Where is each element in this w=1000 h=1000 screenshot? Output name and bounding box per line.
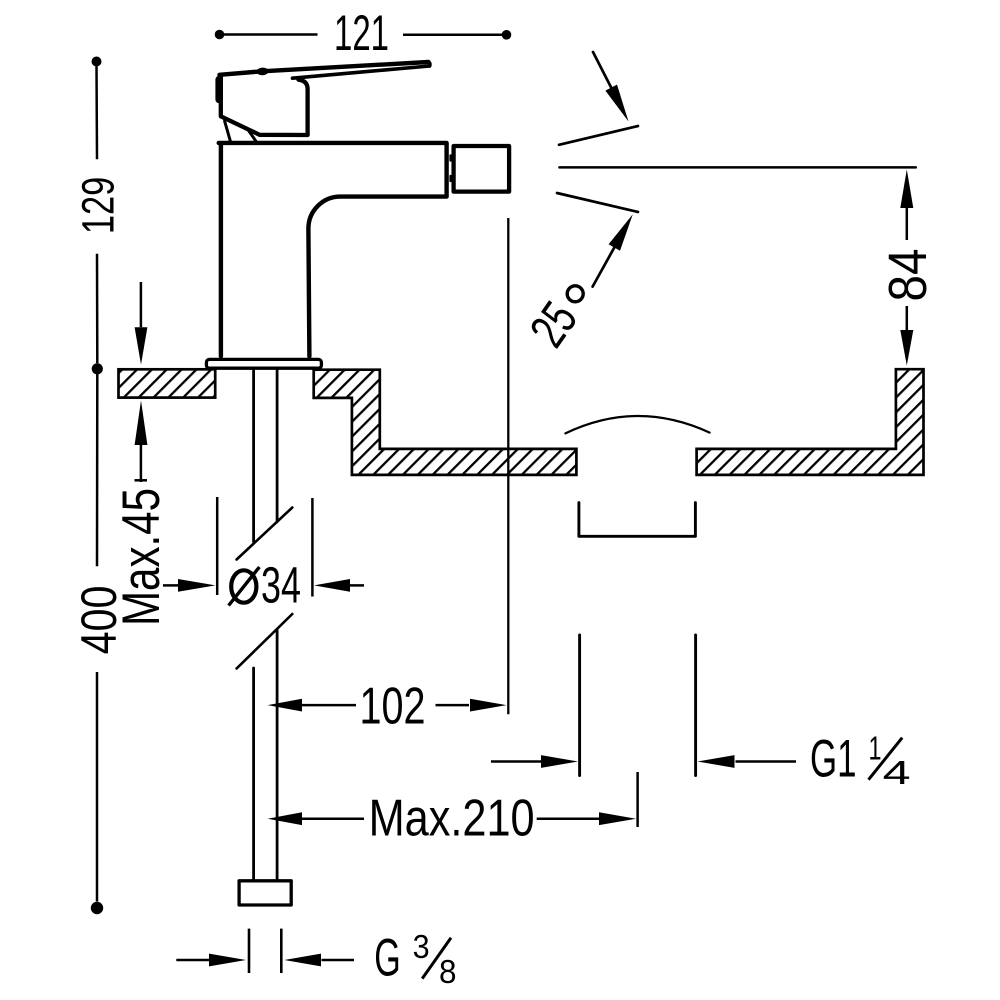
svg-text:G: G xyxy=(374,929,401,988)
aerator xyxy=(454,146,510,192)
svg-text:G1: G1 xyxy=(810,730,857,789)
stepped deck piece xyxy=(314,370,577,475)
supply pipe left line xyxy=(252,371,255,880)
faucet body outline xyxy=(219,143,447,356)
svg-text:3: 3 xyxy=(413,928,430,965)
drain thread extension lines xyxy=(580,635,696,776)
left dim middle dot (deck level) xyxy=(92,363,103,374)
svg-text:1: 1 xyxy=(869,730,882,767)
handle left bump xyxy=(215,80,223,100)
escutcheon diagonal 1 xyxy=(225,121,231,141)
degree circle of 25deg xyxy=(567,286,583,302)
basin bowl curve xyxy=(565,416,709,433)
handle lever top edge xyxy=(220,62,429,75)
pipe break slash upper xyxy=(237,508,293,560)
25deg leader arrow xyxy=(593,248,615,287)
dim 121 right dot xyxy=(502,30,512,40)
handle cartridge body xyxy=(221,76,308,135)
supply pipe right line xyxy=(276,371,279,880)
bottom fitting xyxy=(239,881,291,905)
svg-text:84: 84 xyxy=(878,249,938,302)
spout horizontal reference line xyxy=(559,166,915,169)
svg-text:121: 121 xyxy=(334,5,389,61)
svg-text:102: 102 xyxy=(360,678,426,736)
dim 121 left dot xyxy=(215,30,225,40)
svg-text:8: 8 xyxy=(439,953,457,990)
handle lever tip cap xyxy=(429,62,430,66)
dim 121 line xyxy=(220,33,507,36)
left dim bottom dot xyxy=(91,902,103,914)
svg-text:129: 129 xyxy=(73,177,124,235)
left dim vertical line segments xyxy=(95,66,98,902)
svg-text:Max.45: Max.45 xyxy=(112,488,171,626)
handle lever nub xyxy=(256,67,268,75)
spout axis extension line xyxy=(507,218,509,714)
text G1 1/4 xyxy=(810,730,911,792)
svg-text:4: 4 xyxy=(883,754,911,791)
drain tailpiece xyxy=(579,503,696,537)
left deck slab xyxy=(119,369,216,397)
escutcheon diagonal 2 xyxy=(247,128,256,141)
base flange xyxy=(206,359,321,368)
svg-text:Max.210: Max.210 xyxy=(369,790,535,848)
svg-text:34: 34 xyxy=(261,557,301,614)
pipe break slash lower xyxy=(237,614,293,669)
right basin wall L piece xyxy=(697,369,924,475)
upper swivel line xyxy=(559,126,638,145)
aerator joint ticks xyxy=(449,156,451,182)
upper leader arrow xyxy=(593,52,611,88)
lower swivel line xyxy=(557,193,638,212)
text O34 xyxy=(229,567,260,606)
text G 3/8 xyxy=(374,928,456,990)
left dim top dot xyxy=(92,57,102,67)
handle lever bottom edge xyxy=(293,66,430,78)
